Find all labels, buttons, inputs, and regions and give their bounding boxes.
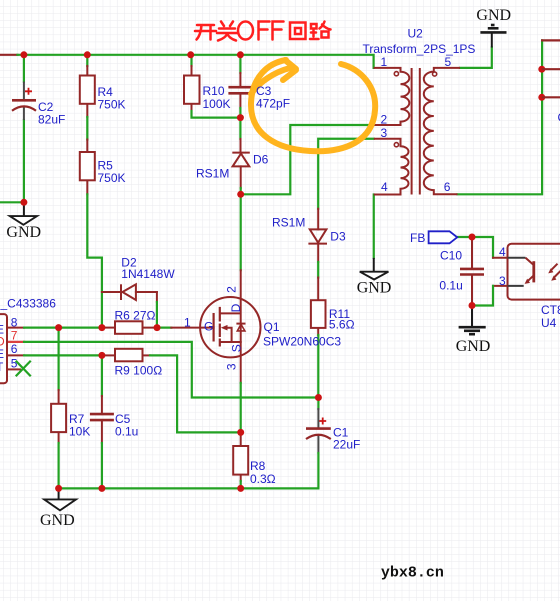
net GND text (C10) — [456, 338, 491, 355]
transistor Q1 SPW20N60C3 (MOSFET) — [200, 297, 260, 357]
label R9 value — [115, 364, 163, 378]
resistor R5 — [80, 152, 95, 180]
resistor R4 — [80, 76, 95, 104]
svg-text:GND: GND — [40, 512, 75, 529]
svg-text:2: 2 — [225, 286, 239, 293]
svg-text:ybx8.cn: ybx8.cn — [381, 565, 444, 582]
label R10 value — [203, 84, 231, 111]
wire D2 left lead — [102, 291, 121, 293]
wire C3 top lead — [239, 55, 241, 87]
label R6 value — [115, 309, 156, 323]
wire gate link — [157, 327, 214, 329]
svg-text:82uF: 82uF — [38, 113, 65, 127]
diode D6 RS1M — [232, 153, 250, 167]
svg-text:GND: GND — [456, 338, 491, 355]
svg-text:D: D — [229, 303, 243, 312]
node pin8-R7 junction — [55, 324, 62, 331]
ground GND (bottom-left, arrow style) — [44, 489, 76, 510]
wire transformer pin6 to output — [458, 40, 560, 194]
svg-text:G: G — [204, 320, 213, 334]
label Q1 G — [204, 320, 213, 334]
svg-text:100K: 100K — [203, 97, 231, 111]
wire C1 bottom lead — [317, 436, 319, 488]
annotation orange circle highlight — [251, 60, 375, 151]
node output pin stub B — [538, 94, 560, 101]
svg-text:0.1u: 0.1u — [115, 425, 138, 439]
label D3 — [330, 230, 346, 244]
net GND text (transformer pin4) — [357, 280, 392, 297]
wire left edge into C2 gnd node — [0, 201, 24, 203]
diode D3 RS1M — [308, 229, 327, 243]
svg-text:6: 6 — [444, 180, 451, 194]
svg-text:C10: C10 — [440, 249, 462, 263]
watermark ybx8.cn — [381, 565, 444, 582]
svg-text:GND: GND — [476, 7, 511, 24]
svg-text:1: 1 — [381, 55, 388, 69]
resistor R8 — [233, 446, 248, 475]
label U2 — [408, 27, 424, 41]
label IC pin name E (pin8) — [0, 322, 4, 336]
label R7 value — [69, 412, 90, 439]
svg-text:0.1u: 0.1u — [439, 279, 462, 293]
label U2 pin 2 — [381, 113, 388, 127]
svg-text:472pF: 472pF — [256, 97, 290, 111]
label C2 value — [38, 100, 65, 127]
svg-text:CT8: CT8 — [541, 303, 560, 317]
svg-text:750K: 750K — [98, 171, 126, 185]
wire FB node — [457, 237, 493, 258]
ground GND (transformer pin4, arrow style) — [360, 258, 389, 280]
capacitor C10 — [460, 269, 484, 275]
node C3-R10-D6 junction — [237, 114, 244, 121]
wire R6 left lead — [102, 327, 115, 329]
wire D6 top lead — [239, 118, 241, 153]
svg-text:Transform_2PS_1PS: Transform_2PS_1PS — [363, 42, 476, 56]
wire C10 bottom lead — [471, 275, 473, 306]
wire C2 top drop — [23, 55, 25, 82]
node R6-D2-gate junction — [154, 324, 161, 331]
node R11-C1-drive junction — [315, 394, 322, 401]
net GND text (C2) — [6, 224, 41, 241]
svg-text:5: 5 — [11, 357, 18, 371]
no-connect X on pin5 — [17, 362, 31, 376]
label IC pin 5 — [11, 357, 18, 371]
label IC pin name D (pin7, red) — [0, 335, 5, 349]
svg-text:8: 8 — [11, 315, 18, 329]
label RS1M (D6) — [196, 167, 229, 181]
ground GND (C10, earth style) — [459, 307, 486, 335]
label opto pin 3 — [499, 274, 506, 288]
wire top bus input stub (off-page pin) — [0, 54, 18, 56]
svg-text:GND: GND — [357, 280, 392, 297]
resistor R11 — [311, 300, 326, 328]
wire C5 branch — [101, 355, 103, 414]
label Q1 value — [263, 320, 341, 349]
label Q1 gate pin 1 — [184, 316, 191, 330]
label FB — [410, 231, 425, 245]
label IC pin 7 (red) — [11, 329, 18, 343]
wire R8 bottom lead — [240, 475, 242, 489]
capacitor C5 — [90, 414, 114, 420]
annotation title 开关OFF回路 (drawn strokes) — [195, 22, 331, 41]
optocoupler U4 phototransistor — [508, 258, 534, 286]
svg-text:SPW20N60C3: SPW20N60C3 — [263, 335, 341, 349]
node bus-R8 junction — [237, 485, 244, 492]
wire R9 left lead — [102, 354, 115, 356]
wire R10 bottom to C3 node — [192, 104, 241, 118]
svg-text:1: 1 — [184, 316, 191, 330]
node bus-C5 junction — [98, 485, 105, 492]
wire C5 bottom — [101, 420, 103, 488]
svg-text:Q1: Q1 — [264, 320, 280, 334]
label C10 value — [439, 249, 462, 293]
svg-text:6: 6 — [11, 342, 18, 356]
label IC pin 6 — [11, 342, 18, 356]
svg-text:3: 3 — [499, 274, 506, 288]
svg-text:3: 3 — [381, 126, 388, 140]
node C10-gnd junction — [469, 302, 476, 309]
node bus-R10 junction — [187, 51, 194, 58]
svg-text:GND: GND — [6, 224, 41, 241]
label IC pin name E (pin6) — [0, 347, 4, 361]
label R5 value — [98, 159, 126, 186]
wire C1 top lead — [317, 398, 319, 428]
capacitor C2 (electrolytic) — [12, 82, 36, 120]
wire drain node to transformer pin2 — [241, 125, 374, 194]
diode D2 1N4148W — [121, 284, 136, 300]
svg-text:D6: D6 — [253, 153, 269, 167]
wire R6 right lead to gate node — [143, 327, 158, 329]
wire IC pin8 lead — [7, 327, 104, 329]
wire transformer pin3 to D3 — [318, 139, 374, 230]
optocoupler U4 light arrows — [548, 264, 560, 281]
wire C2 bottom to gnd node — [23, 120, 25, 202]
svg-text:D3: D3 — [330, 230, 346, 244]
capacitor C3 — [228, 87, 252, 93]
wire Q1 drain trunk — [240, 194, 242, 342]
svg-text:2: 2 — [381, 113, 388, 127]
resistor R7 — [51, 404, 66, 432]
svg-text:R6 27Ω: R6 27Ω — [115, 309, 156, 323]
net GND text (top right) — [476, 7, 511, 24]
svg-text:R8: R8 — [250, 459, 266, 473]
label C (cut at right edge) — [558, 111, 560, 125]
wire C3 bottom lead — [239, 93, 241, 117]
svg-text:5: 5 — [445, 55, 452, 69]
label Q1 S (rotated) — [229, 344, 243, 352]
resistor R6 — [115, 321, 143, 334]
node output pin stub A — [538, 66, 560, 73]
node drain-D6-pin2 junction — [237, 191, 244, 198]
wire transformer pin5 to gnd — [460, 48, 492, 68]
transformer U2 winding 2 (pins 3-4) — [374, 139, 409, 195]
wire bottom ground bus — [59, 487, 319, 489]
svg-text:S: S — [229, 344, 243, 352]
svg-text:RS1M: RS1M — [272, 216, 305, 230]
node FB-C10 junction — [469, 234, 476, 241]
svg-text:R9 100Ω: R9 100Ω — [115, 364, 163, 378]
node bus-C2 junction — [20, 51, 27, 58]
svg-text:4: 4 — [499, 245, 506, 259]
transformer U2 core — [412, 68, 420, 195]
node bus-R4 junction — [84, 51, 91, 58]
wire R9 right to R8 top node — [143, 355, 241, 432]
wire R4-R5 link — [86, 104, 88, 152]
svg-text:1N4148W: 1N4148W — [121, 267, 175, 281]
resistor R9 — [115, 349, 143, 362]
ground GND (top right, earth style inverted) — [480, 25, 506, 48]
wire opto pin4 lead — [493, 257, 508, 259]
net GND text (bottom-left) — [40, 512, 75, 529]
transformer U2 secondary winding (pins 5-6) — [424, 68, 460, 194]
svg-text:U4: U4 — [541, 316, 557, 330]
port FB — [429, 231, 458, 243]
transformer U2 winding 1 (pins 1-2) — [374, 68, 410, 125]
optocoupler U4 body — [508, 244, 560, 300]
IC U3 C433386 body — [0, 314, 7, 383]
node R8-source junction — [237, 429, 244, 436]
wire Q1 source trunk — [240, 342, 242, 432]
label R8 value — [250, 459, 276, 486]
node pin8-D2 junction — [98, 324, 105, 331]
label CT8 (opto part) — [541, 303, 560, 317]
wire top HV bus — [18, 55, 374, 68]
node bus-C3 junction — [237, 51, 244, 58]
label Q1 pin 2 (rotated) — [225, 286, 239, 293]
label IC pin 8 — [11, 315, 18, 329]
label IC refdes C433386 — [0, 297, 56, 311]
resistor R10 — [184, 76, 200, 104]
svg-text:_C433386: _C433386 — [0, 297, 56, 311]
wire R11 bottom to C1 node — [317, 328, 319, 398]
wire R4 top lead — [86, 55, 88, 76]
svg-text:22uF: 22uF — [333, 438, 360, 452]
label Q1 pin 3 (rotated) — [225, 363, 239, 370]
label U2 pin 1 — [381, 55, 388, 69]
label C5 value — [115, 412, 138, 439]
wire R8 top lead — [240, 432, 242, 446]
node C2-gnd junction — [20, 199, 27, 206]
wire C10 top lead — [471, 237, 473, 269]
wire R7 bottom — [58, 432, 60, 488]
capacitor C1 (electrolytic) — [306, 418, 331, 440]
svg-text:4: 4 — [381, 180, 388, 194]
svg-text:RS1M: RS1M — [196, 167, 229, 181]
svg-text:U2: U2 — [408, 27, 424, 41]
wire R5 bottom to pin8 vertical — [87, 180, 102, 327]
wire opto pin3 to C10 bottom node — [472, 286, 508, 306]
wire D6 bottom lead — [240, 166, 242, 194]
svg-text:10K: 10K — [69, 425, 90, 439]
wire IC pin7 to C1 node (drive line) — [7, 342, 318, 398]
svg-text:FB: FB — [410, 231, 425, 245]
wire IC pin5 stub — [7, 368, 20, 370]
label D6 — [253, 153, 269, 167]
label Q1 D (rotated) — [229, 303, 243, 312]
svg-text:3: 3 — [225, 363, 239, 370]
label D2 value — [121, 255, 175, 281]
label Transform_2PS_1PS — [363, 42, 476, 56]
node pin6-C5 junction — [98, 352, 105, 359]
wire D3 to R11 — [317, 244, 319, 301]
label opto pin 4 — [499, 245, 506, 259]
label RS1M (D3) — [272, 216, 305, 230]
ground GND (C2, arrow style) — [10, 204, 37, 225]
label C3 value — [256, 84, 290, 111]
svg-text:0.3Ω: 0.3Ω — [250, 472, 276, 486]
wire IC pin6 lead — [7, 354, 104, 356]
label R11 value — [329, 307, 355, 332]
label R4 value — [98, 85, 126, 112]
label U2 pin 3 — [381, 126, 388, 140]
wire transformer pin4 to gnd — [373, 195, 375, 258]
svg-text:7: 7 — [11, 329, 18, 343]
svg-text:750K: 750K — [98, 98, 126, 112]
label U4 — [541, 316, 557, 330]
label C1 value — [333, 426, 360, 452]
label U2 pin 6 — [444, 180, 451, 194]
label U2 pin 5 — [445, 55, 452, 69]
wire R10 top lead — [190, 55, 192, 76]
label U2 pin 4 — [381, 180, 388, 194]
svg-text:5.6Ω: 5.6Ω — [329, 318, 355, 332]
wire R7 branch — [57, 328, 59, 404]
label IC pin name T (pin5) — [0, 360, 4, 374]
wire D2 right leg down — [136, 292, 157, 328]
node bus-gnd junction — [55, 485, 62, 492]
